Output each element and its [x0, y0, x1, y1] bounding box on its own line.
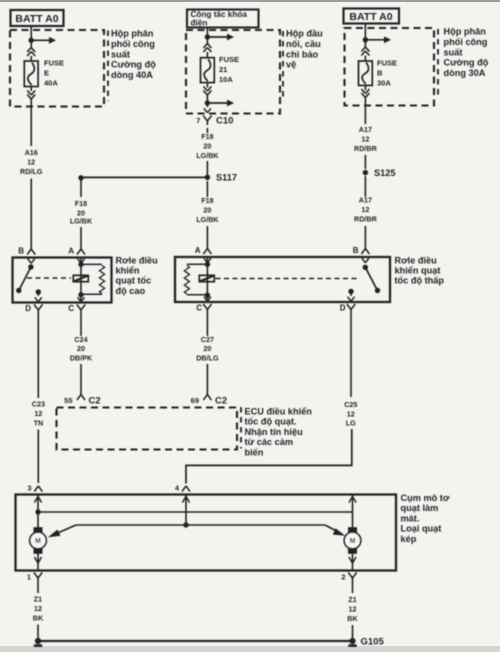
svg-text:FUSE: FUSE: [377, 59, 397, 68]
svg-text:LG/BK: LG/BK: [196, 215, 219, 224]
svg-text:Loại quạt: Loại quạt: [401, 524, 442, 534]
svg-text:M: M: [350, 538, 356, 545]
svg-text:B: B: [377, 69, 383, 78]
svg-text:D: D: [25, 304, 31, 313]
svg-text:từ các cảm: từ các cảm: [245, 437, 294, 447]
svg-text:1: 1: [27, 573, 31, 582]
svg-text:Hộp đầu: Hộp đầu: [286, 29, 323, 39]
svg-text:12: 12: [349, 605, 357, 614]
svg-text:F18: F18: [201, 196, 213, 205]
svg-text:BATT A0: BATT A0: [15, 13, 58, 25]
svg-text:S117: S117: [216, 173, 237, 183]
svg-text:tốc độ quạt.: tốc độ quạt.: [245, 417, 297, 427]
svg-text:S125: S125: [374, 168, 395, 178]
svg-text:FUSE: FUSE: [219, 55, 239, 64]
svg-text:kép: kép: [401, 534, 417, 544]
svg-text:12: 12: [27, 158, 35, 167]
svg-text:ECU điều khiển: ECU điều khiển: [245, 407, 313, 417]
svg-text:F18: F18: [75, 199, 87, 208]
svg-text:C: C: [196, 304, 202, 313]
svg-text:G105: G105: [361, 637, 385, 648]
svg-text:suất: suất: [444, 47, 463, 57]
svg-text:12: 12: [347, 410, 355, 419]
svg-text:M: M: [35, 538, 41, 545]
svg-text:LG/BK: LG/BK: [196, 151, 219, 160]
svg-text:DB/LG: DB/LG: [196, 354, 219, 363]
svg-text:chì bảo: chì bảo: [286, 49, 319, 59]
svg-text:LG: LG: [346, 419, 356, 428]
svg-text:khiển: khiển: [116, 266, 140, 276]
svg-text:LG/BK: LG/BK: [70, 217, 93, 226]
svg-text:DB/PK: DB/PK: [70, 354, 93, 363]
svg-text:BK: BK: [347, 614, 358, 623]
svg-text:dòng 30A: dòng 30A: [444, 68, 486, 78]
svg-text:C24: C24: [74, 335, 87, 344]
svg-text:phối công: phối công: [444, 37, 488, 47]
svg-text:F18: F18: [201, 132, 213, 141]
svg-text:20: 20: [203, 142, 211, 151]
svg-text:độ cao: độ cao: [116, 286, 146, 296]
svg-text:Z1: Z1: [34, 595, 42, 604]
svg-text:12: 12: [34, 409, 42, 418]
svg-text:điện: điện: [191, 18, 208, 27]
svg-text:40A: 40A: [44, 79, 58, 88]
svg-text:A17: A17: [359, 125, 372, 134]
svg-text:C2: C2: [89, 396, 101, 407]
svg-text:C25: C25: [344, 400, 357, 409]
svg-text:Cường độ: Cường độ: [444, 58, 489, 68]
svg-text:RD/LG: RD/LG: [20, 167, 43, 176]
svg-text:C: C: [68, 304, 74, 313]
svg-text:C27: C27: [201, 335, 214, 344]
svg-text:20: 20: [203, 206, 211, 215]
svg-text:C2: C2: [215, 396, 227, 407]
svg-text:B: B: [353, 246, 359, 255]
svg-text:E: E: [44, 69, 49, 78]
svg-text:D: D: [340, 304, 346, 313]
svg-text:Z1: Z1: [348, 595, 356, 604]
svg-text:suất: suất: [111, 49, 130, 59]
svg-text:Cường độ: Cường độ: [111, 60, 156, 70]
svg-text:Rơle điều: Rơle điều: [116, 256, 158, 266]
svg-text:quạt làm: quạt làm: [401, 503, 439, 513]
svg-text:RD/BR: RD/BR: [354, 144, 378, 153]
svg-text:C23: C23: [32, 400, 45, 409]
svg-text:dòng 40A: dòng 40A: [111, 70, 153, 80]
svg-text:12: 12: [361, 135, 369, 144]
svg-text:3: 3: [27, 484, 31, 493]
svg-text:vệ: vệ: [286, 60, 296, 70]
svg-text:khiển quạt: khiển quạt: [395, 266, 441, 276]
svg-text:A: A: [195, 246, 201, 255]
svg-text:Nhận tín hiệu: Nhận tín hiệu: [245, 427, 303, 437]
svg-text:2: 2: [341, 573, 345, 582]
svg-text:7: 7: [196, 116, 200, 125]
svg-text:B: B: [18, 247, 24, 256]
svg-text:Cụm mô tơ: Cụm mô tơ: [401, 493, 450, 503]
svg-text:10A: 10A: [219, 75, 233, 84]
svg-text:mát.: mát.: [401, 513, 420, 523]
svg-text:A: A: [68, 247, 74, 256]
svg-text:quạt tốc: quạt tốc: [116, 276, 152, 286]
svg-text:BK: BK: [33, 614, 44, 623]
svg-text:C10: C10: [216, 116, 233, 127]
svg-text:55: 55: [64, 396, 72, 405]
svg-text:BATT A0: BATT A0: [349, 11, 392, 23]
svg-text:nối, cầu: nối, cầu: [286, 39, 321, 49]
svg-text:Hộp phân: Hộp phân: [444, 27, 487, 37]
svg-text:12: 12: [34, 604, 42, 613]
svg-text:20: 20: [203, 344, 211, 353]
svg-text:Rơle điều: Rơle điều: [395, 256, 437, 266]
svg-text:tốc độ thấp: tốc độ thấp: [395, 276, 445, 286]
svg-text:TN: TN: [34, 419, 44, 428]
svg-text:30A: 30A: [377, 79, 391, 88]
svg-text:A17: A17: [359, 196, 372, 205]
svg-text:20: 20: [77, 344, 85, 353]
svg-text:Hộp phân: Hộp phân: [111, 29, 154, 39]
svg-text:FUSE: FUSE: [44, 59, 64, 68]
svg-text:12: 12: [361, 205, 369, 214]
svg-text:69: 69: [191, 396, 199, 405]
svg-text:RD/BR: RD/BR: [354, 215, 378, 224]
svg-text:21: 21: [219, 65, 227, 74]
svg-text:A16: A16: [25, 148, 38, 157]
svg-text:phối công: phối công: [111, 39, 155, 49]
svg-text:biến: biến: [245, 447, 264, 457]
